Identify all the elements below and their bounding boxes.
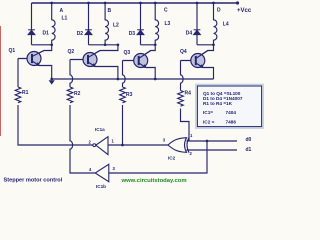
svg-text:IC1=: IC1= [203, 110, 213, 115]
svg-text:D3: D3 [129, 31, 136, 37]
svg-text:C: C [164, 8, 168, 14]
svg-text:L4: L4 [223, 22, 229, 28]
svg-text:Q4: Q4 [180, 49, 187, 55]
svg-text:IC1a: IC1a [95, 127, 105, 132]
svg-text:L2: L2 [113, 23, 119, 29]
svg-text:Q1: Q1 [9, 48, 16, 54]
svg-text:D1: D1 [43, 31, 50, 37]
svg-text:R3: R3 [126, 92, 133, 98]
svg-text:R4: R4 [185, 91, 192, 97]
svg-text:Stepper motor control: Stepper motor control [4, 178, 63, 184]
svg-text:IC1b: IC1b [96, 184, 106, 189]
svg-text:A: A [60, 8, 64, 14]
svg-text:d1: d1 [246, 147, 252, 153]
svg-text:Q2: Q2 [68, 49, 75, 55]
svg-text:R2: R2 [74, 91, 81, 97]
svg-text:www.circuitstoday.com: www.circuitstoday.com [121, 178, 187, 184]
svg-text:+Vcc: +Vcc [237, 8, 252, 14]
svg-text:d0: d0 [246, 137, 252, 143]
svg-text:7486: 7486 [226, 120, 237, 125]
svg-text:L3: L3 [165, 21, 171, 27]
svg-text:D4: D4 [186, 31, 193, 37]
svg-text:D2: D2 [77, 31, 84, 37]
svg-text:IC2: IC2 [168, 156, 176, 161]
svg-text:L1: L1 [62, 16, 68, 22]
svg-text:B: B [108, 8, 112, 14]
svg-text:R1 to R4 =1K: R1 to R4 =1K [203, 101, 233, 106]
svg-text:IC2 =: IC2 = [203, 120, 215, 125]
svg-text:R1: R1 [22, 90, 29, 96]
svg-text:7404: 7404 [226, 110, 237, 115]
svg-text:D: D [217, 8, 221, 14]
svg-text:Q3: Q3 [124, 50, 131, 56]
